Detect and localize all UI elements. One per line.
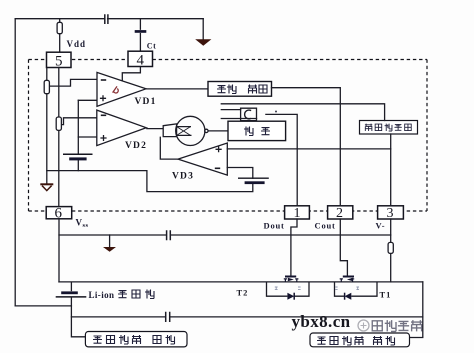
wire pin6 down [58,219,60,282]
power arrow on Vss rail (maroon) [103,247,116,252]
terminal box plus (dianchi zujian zhengji) [85,332,187,347]
svg-text:Li-ion: Li-ion [89,290,115,300]
wire left outer vertical [14,19,16,306]
wire VD2 plus input [78,136,97,138]
svg-text:4: 4 [137,53,145,69]
wire pin3 down to RV resistor [390,219,392,242]
svg-text:VD1: VD1 [135,97,157,107]
wire drop to power arrow [202,19,204,40]
resistor R2 [56,117,61,130]
oscillator clamp cell [241,108,257,120]
svg-text:3: 3 [387,206,394,221]
pin 5 box [47,52,72,67]
block level-shift (dian ping zhuan huan) [208,82,272,97]
resistor R-vdd (top, on Vdd feed) [57,19,62,52]
svg-text:ybx8.cn: ybx8.cn [292,312,351,331]
wire VD3 output up to oscillator [160,137,178,160]
wire source rail (FET channel) [59,281,423,283]
wire R2 tap jog to VD2 minus [61,118,97,125]
svg-text:T2: T2 [237,288,249,298]
svg-text:VD3: VD3 [172,172,194,182]
wire VD3 minus to battery B2 [227,168,253,179]
svg-text:ss: ss [83,222,89,229]
T1 body diode loop [335,282,378,296]
pin 4 box [128,51,153,66]
wire RV resistor to source rail [390,253,392,282]
wire level-shift out to pin2 [272,88,341,206]
svg-text:Vdd: Vdd [67,39,87,49]
pin 6 box [46,207,71,219]
block short-circuit-detect (duan lu jian ce) [360,121,418,135]
wire internal ground bus [47,171,253,192]
wire Vss rail right segment [171,234,391,236]
op-amp VD1 [97,72,146,106]
mosfet T1 [335,277,378,300]
wire VD2 output to oscillator [146,128,163,130]
block delay (yan shi) [228,121,286,140]
wire VD1 plus input [78,99,97,101]
wire oscillator top bar to short-detect [221,104,384,121]
svg-text:Cout: Cout [315,221,336,231]
pin 2 box [328,206,353,219]
wire VD3 plus input line [227,148,390,150]
pin 3 box [378,206,404,219]
wire top rail right segment [108,18,204,20]
terminal box minus (dianchi zujian fuji) [310,333,410,347]
watermark logo + gray text [358,320,422,331]
wire short-detect down to pin3 [390,134,392,206]
svg-text:T1: T1 [380,290,392,300]
resistor RV (on V- line) [388,242,393,253]
dashed IC top edge [29,59,428,61]
svg-text:V-: V- [376,221,386,231]
battery B2 (Vref2) [238,178,269,184]
battery Li-ion cell [56,282,87,337]
svg-text:VD2: VD2 [125,141,147,151]
wire Vss rail left segment [59,234,166,236]
battery B1 (Vref) [63,154,93,160]
T2 body diode loop [267,282,310,296]
oscillator input cell [163,124,176,137]
oscillator clamp bars [221,110,256,119]
wire VD1 output to level-shift box [146,88,208,90]
faint pin marks T1 [335,287,359,290]
wire delay-top feed to pin1 [266,114,297,205]
wire pin2 jog down to T1 gate [340,219,347,276]
wire oscillator to delay box [208,130,228,132]
wire pin1 jog down to T2 gate [291,219,297,276]
svg-text:Ct: Ct [147,42,156,51]
mosfet T2 [267,277,310,300]
junction dot [275,111,277,113]
svg-text:2: 2 [336,206,343,221]
oscillator circle [176,116,205,145]
op-amp VD3 (points left) [178,143,227,175]
svg-text:Dout: Dout [264,221,285,231]
wire right drop to minus-terminal box [410,282,423,338]
wire top rail left segment [15,18,104,20]
resistor R1 [44,80,49,93]
wire R1 bottom down to ground arrow, with bus tap [46,94,48,184]
capacitor on pack line [166,313,170,322]
ground arrow (IC left, maroon) [40,184,53,190]
op-amp VD2 [97,110,146,146]
dashed IC bottom edge [29,210,428,212]
capacitor on Vss rail [167,231,171,240]
pin 1 box [285,206,310,219]
dashed IC right edge [426,60,428,212]
wire pack plus line [71,313,422,322]
power arrow (top right, maroon) [195,39,211,46]
wire box4 drop to VD1 top edge [122,67,140,82]
wire battery B1 bottom to bus [77,160,79,170]
faint pin marks T2 [275,287,301,290]
wire box5 to R1 [46,68,48,81]
svg-text:V: V [76,218,83,228]
oscillator output bubble [205,129,208,132]
wire R2 bottom down through bus to pin6 [58,130,60,206]
dashed IC left edge [28,60,30,212]
wire bottom-left horizontal [15,305,71,307]
wire box5 right drop to R2 [58,68,60,118]
wire R1 tap jog to VD1 minus [49,79,97,86]
capacitor C (series, top rail) [105,15,108,23]
wire Vref vertical to battery [77,100,79,154]
wire stub to maroon arrow [109,235,111,247]
capacitor Ct [135,19,147,51]
